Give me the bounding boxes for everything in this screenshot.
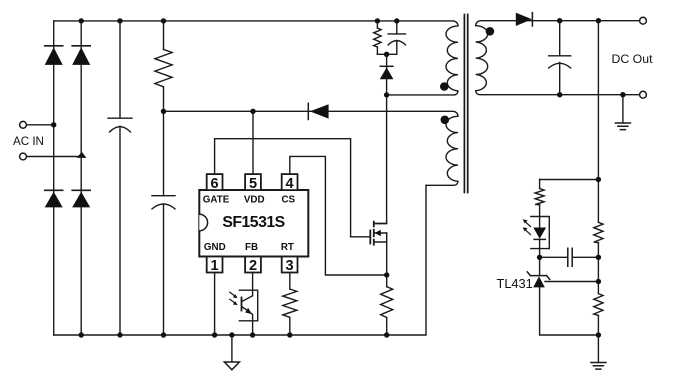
capacitor C5 output [549, 56, 571, 68]
TL431 U3 [527, 272, 549, 279]
terminal AC2 [20, 153, 27, 160]
wire left bridge leg x=54 [53, 21, 55, 335]
wire feedback top horizontal [540, 179, 599, 181]
wire bottom rail + aux winding return [54, 185, 426, 335]
terminal DC+ [640, 17, 647, 24]
resistor R9 divider lower [594, 294, 603, 316]
wire divider column x=598.4 [597, 21, 599, 363]
terminal AC1 [20, 121, 27, 128]
resistor R8 divider upper [594, 222, 603, 242]
svg-text:DC Out: DC Out [612, 52, 654, 66]
optocoupler U2A light arrows [525, 222, 531, 235]
wire C6 left [540, 256, 568, 258]
diode D7 output rectifier [531, 13, 533, 26]
wire gate route pin6 [215, 139, 370, 237]
diode D5 snubber clamp [380, 65, 393, 67]
wire snubber join [377, 53, 396, 55]
wire C6 right [572, 256, 598, 258]
snubber resistor R2 leg [376, 21, 378, 54]
optocoupler U2B base bar [241, 298, 243, 311]
wire top rail + transformer primary winding [54, 21, 458, 95]
svg-text:GND: GND [204, 242, 226, 253]
wire switch node: snubber to drain [374, 54, 387, 223]
diode D1 bridge [45, 45, 63, 47]
capacitor C6 feedback [568, 248, 572, 266]
wire secondary top + transformer secondary winding + secondary bottom [476, 21, 640, 95]
optocoupler U2B phototransistor box [239, 290, 257, 321]
svg-text:1: 1 [211, 258, 219, 274]
snubber capacitor C3 leg [396, 21, 398, 54]
capacitor C5 output leg [559, 21, 561, 95]
wire AC terminal 1 to bridge [27, 124, 54, 126]
wire LED to TL431 [539, 239, 541, 275]
wire bulk cap leg x=120 [119, 21, 121, 335]
resistor R5 RT [283, 289, 297, 317]
capacitor C2 [152, 196, 175, 209]
ground output symbol [615, 123, 630, 130]
svg-text:AC IN: AC IN [13, 135, 44, 148]
wire pin2 FB lead [252, 273, 254, 296]
IC U1 SF1531S body [199, 190, 308, 257]
transformer polarity dots [440, 82, 449, 91]
resistor R1 startup [155, 49, 172, 86]
optocoupler U2B light arrows [230, 292, 236, 303]
svg-text:VDD: VDD [244, 194, 265, 205]
wire TL431 ref line [545, 281, 598, 283]
ground TL431 symbol [591, 363, 606, 370]
wire pin3 RT lead [289, 273, 291, 290]
capacitor C3 [388, 34, 405, 45]
optocoupler U2B collector [242, 296, 253, 302]
terminal DC- [640, 91, 647, 98]
resistor R2 [374, 28, 381, 47]
ground primary triangle [224, 362, 239, 370]
svg-text:SF1531S: SF1531S [222, 214, 284, 231]
IC pin box 3 [282, 257, 298, 273]
diode D2 bridge [72, 45, 90, 47]
wire CS route pin4 [290, 156, 387, 275]
svg-text:2: 2 [249, 258, 257, 274]
IC pin box 6 [207, 174, 223, 190]
IC pin box 4 [282, 174, 298, 190]
wire AC terminal 2 to bridge [27, 156, 82, 158]
svg-text:TL431: TL431 [497, 276, 533, 291]
svg-text:6: 6 [211, 176, 219, 192]
capacitor C1 bulk [108, 118, 132, 132]
wire R5 to rail [289, 317, 291, 335]
IC pin box 1 [207, 257, 223, 273]
svg-text:GATE: GATE [203, 194, 230, 205]
IC pin box 5 [245, 174, 261, 190]
wire VDD line + transformer aux winding [164, 111, 459, 185]
wire Q1 source vertical [386, 233, 388, 335]
svg-text:CS: CS [281, 194, 295, 205]
transistor Q1 MOSFET [369, 231, 371, 244]
transformer T1 core [464, 15, 467, 193]
wire opto branch upper lead [539, 180, 541, 228]
junction arrow at AC line 2 [77, 152, 87, 158]
wire startup leg x=163.5 [163, 21, 165, 335]
resistor R6 source sense [381, 287, 393, 318]
wire pin1 GND lead [214, 273, 216, 336]
diode D6 VDD rectifier [307, 103, 309, 119]
diode D3 bridge [45, 189, 63, 191]
wire second bridge leg x=81 [80, 21, 82, 335]
diode D4 bridge [72, 189, 90, 191]
optocoupler U2A LED [533, 228, 546, 239]
IC U1 notch [199, 214, 207, 231]
svg-text:4: 4 [286, 176, 294, 192]
IC pin box 2 [245, 257, 261, 273]
svg-text:3: 3 [286, 258, 294, 274]
optocoupler U2A LED box [531, 217, 550, 249]
optocoupler U2B emitter [242, 307, 253, 335]
svg-text:5: 5 [249, 176, 257, 192]
wire TL431 anode to bottom [540, 287, 599, 335]
terminals [20, 17, 647, 160]
svg-text:RT: RT [281, 242, 294, 253]
ground primary stem [231, 335, 233, 362]
svg-text:FB: FB [245, 242, 258, 253]
wire VDD pin lead [252, 111, 254, 174]
ground output stem [622, 95, 624, 123]
resistor R7 LED series [535, 189, 544, 205]
